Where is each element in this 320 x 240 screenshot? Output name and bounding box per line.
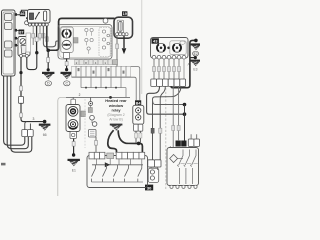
fuse F4 [5,50,13,57]
svg-text:2: 2 [79,93,81,97]
diamond sensor [170,155,178,163]
cluster mid pins [85,28,93,50]
sensor B7 body [18,37,30,57]
relay resistor pill [44,11,47,21]
wire conn4 down crossing [172,86,174,147]
wire W2 row to lead 30 right [160,86,165,159]
element top connectors right [116,152,145,159]
relay pin1 feed dot [26,17,28,19]
fusebox terminal T4 [14,44,17,47]
wire connector down to bend [21,103,45,121]
dashed divider [84,99,86,148]
wire relay pin2 down [32,26,34,45]
element top connectors left [89,152,105,159]
fuse F1 [5,14,13,21]
relay B4 label [135,100,141,105]
wire earth feed thick [171,40,196,87]
aux resistor block [89,130,97,138]
junction dot between bulbs [167,47,170,50]
stubs above inline connectors [191,134,197,139]
wire Q tee to cross h1 [153,99,185,105]
label 3b [74,38,78,43]
cluster right pin column [99,28,111,57]
svg-text:C: C [65,82,68,86]
lamp unit box [151,38,189,59]
wire relay pin5 bend right [43,26,58,47]
svg-text:E2: E2 [194,52,198,56]
wire pump pin1 down [116,36,118,49]
junction node C [19,71,22,74]
heater element box [87,156,148,188]
svg-text:E1: E1 [72,169,76,173]
fuse F3 [5,41,13,48]
lamp unit bulb B [170,41,186,55]
wire bus h2 [72,77,137,100]
element switch 2 [103,165,107,182]
switch S1 lamp [68,106,78,116]
element bus [92,164,143,166]
label 87 [19,30,25,35]
element switch 5 [138,165,142,182]
pump motor box [114,17,133,38]
ground E3 [190,60,201,72]
pack switch 1 [177,150,183,185]
relay U1 body [28,10,51,24]
svg-text:43: 43 [153,39,158,44]
big box left edge [58,97,66,196]
wire relay pin6 bend right thick [47,26,56,50]
wire bulb stub to ground C [66,59,68,70]
pump inner body [117,20,123,32]
wire bundle L3 [11,76,32,152]
relay coil [30,13,34,20]
junction node H [183,112,187,116]
wire fusebox terminal T2 stub [17,29,20,31]
wire relay pin3 down black [36,26,38,53]
svg-text:D: D [47,82,50,86]
wires pins to connector row [154,59,179,79]
label 86 [20,11,25,16]
fusebox terminal T2 [14,29,17,32]
wire fusebox terminal T3 stub [17,37,19,39]
relay pin1 oval connector [25,21,29,25]
ground D [42,72,54,86]
switch S1 contact [68,119,78,129]
sensor B7 element [21,46,27,54]
fuse F2 [5,23,13,30]
connector pair squares [22,130,28,137]
junction node F [194,39,198,43]
relay pin row [28,23,48,26]
wire aux block down [95,137,97,153]
lead unit 30 [148,168,159,182]
fusebox terminal T1 [14,13,17,16]
relay B4 body [133,105,144,124]
ground C [61,72,73,86]
wire conn5 down crossing [178,86,180,140]
wire P row to lead 30 left [153,86,182,159]
bulb L2 [62,40,71,49]
bulb L1 [62,29,71,38]
wire pump pin2 arrow [123,36,125,48]
wire node B to ground D [47,50,49,70]
black connector pair [176,141,181,147]
wire label strip [26,33,31,52]
pack switch 2 [184,150,190,185]
heated rear window relay text [105,98,127,112]
svg-text:Arrow B): Arrow B) [109,117,123,121]
wire S1 to ground E1 [73,139,75,156]
sensor B7 pins [20,54,23,57]
switch S1 body [66,105,80,132]
connector square inline [18,97,23,104]
svg-text:87: 87 [19,30,23,34]
wire into pack top left [169,146,171,147]
junction node E [137,142,141,146]
label N [81,111,85,117]
svg-text:E3: E3 [193,68,197,72]
svg-text:relay: relay [111,107,121,112]
inline connectors top right [188,139,194,146]
label 30 [145,185,153,191]
ground E1 [68,159,80,173]
terminal strip cells [72,66,76,76]
wire node G down to switch box [184,105,186,147]
wire branch to ground E3 [190,57,195,59]
svg-text:86: 86 [20,12,24,16]
aux pins column [89,102,97,127]
pack ticks [181,162,198,164]
junction node A [35,51,38,54]
connector row squares [151,79,186,86]
wire fusebox terminal T4 stub [17,44,19,46]
big box right edge [165,88,167,190]
lamp unit pin row [152,55,186,59]
scan mark left edge [1,163,6,166]
pin label row [75,60,113,65]
warning lamp module [61,27,73,53]
ground E2 [191,43,202,56]
wire fusebox to relay 86 [17,10,28,14]
wire S row to cross h2 [147,86,185,114]
relay switch contact [36,13,40,19]
element switch 3 [114,165,118,182]
svg-text:66: 66 [43,133,47,137]
pack bottom pins [170,185,197,188]
wire bus h3 [81,77,126,97]
switch pack box [167,148,199,186]
ground 66 [39,124,51,137]
pin row extra dark label [113,60,118,65]
inline lead connectors [148,160,155,167]
element switch 4 [125,165,129,182]
wire main feed up to top rail [56,18,115,50]
label 43 [152,38,159,43]
fusebox body [2,10,16,76]
wire lamp unit A-label leg [183,59,185,88]
pump pin row [116,33,129,36]
wire motor feed down [116,49,118,67]
wire relay pin4 down [39,26,41,40]
wire B7 pin2 U-turn [27,54,37,70]
junction node B [46,49,50,53]
wire bundle L1 [4,76,25,145]
wire arrow right leg thick [118,130,142,153]
sensor B7 dial [20,39,26,45]
svg-text:19: 19 [123,12,127,16]
switch S1 bottom connector [70,132,76,139]
cluster box [58,25,112,60]
fusebox terminal T3 [14,37,17,40]
wire B7 pin1 down [20,57,22,96]
switch S1 stub top [71,99,76,104]
wire labels on bend wires [42,34,45,39]
element inner bottom line [92,181,144,183]
wire bus h1 [72,67,140,101]
pack switch 3 [190,150,196,185]
junction node G [183,103,187,107]
svg-text:3: 3 [33,117,35,121]
wire bundle L2 [7,76,28,149]
label 19 [122,11,127,16]
element switch 1 [92,165,96,182]
wire arrow left leg thick [108,130,117,153]
rail connector bead [103,18,108,23]
column divider line [141,0,143,94]
element diode arrow [105,162,110,167]
relay B4 connectors [134,124,139,131]
bulb stub connector [64,53,70,59]
wire B4 legs down [135,131,137,143]
wire switch feed h [66,96,130,98]
wire from squares up [25,122,27,130]
lamp unit bulb A [157,43,166,52]
arrow symbol to diagram 2 [110,124,123,131]
element label plate [107,153,114,159]
junction node D [43,120,47,124]
